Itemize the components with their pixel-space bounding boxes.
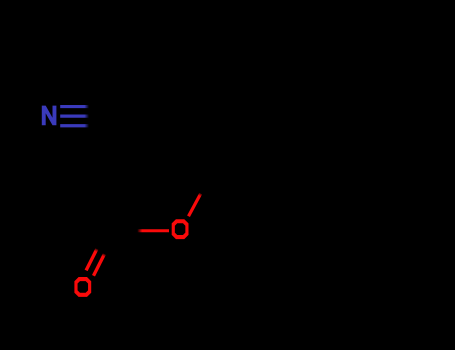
atom N (nitrile nitrogen) [42,106,57,126]
double bond C=O line 2 (lower-right) [94,254,105,276]
double bond C=O line 1 (upper-left) [86,249,97,270]
atom O (ester oxygen) [172,219,189,239]
triple bond C#N line 3 (bottom) [60,124,89,127]
triple bond C#N line 2 (middle) [60,115,89,118]
atom O (carbonyl oxygen) [74,277,91,297]
triple bond C#N line 1 (top) [60,105,89,108]
bond O-CH single bond (diagonal up-right from ester O) [189,194,201,217]
bond O-C(=O) single bond (horizontal ester link) [137,229,169,232]
